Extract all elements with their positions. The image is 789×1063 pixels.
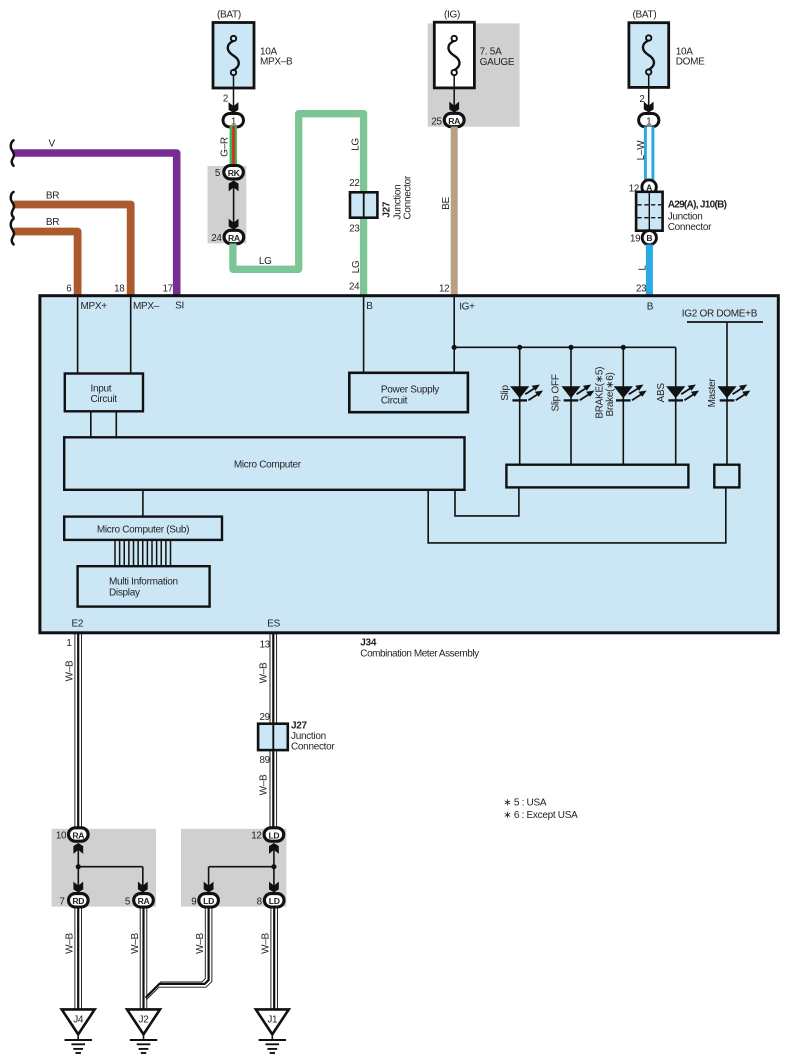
svg-text:1: 1 [231,117,237,128]
wire pin18 to input circuit [130,297,132,374]
svg-text:∗ 5 : USA: ∗ 5 : USA [503,798,547,809]
wire L-W [636,127,654,181]
wire brake LED branch [622,347,624,464]
svg-text:Micro Computer (Sub): Micro Computer (Sub) [97,524,189,535]
svg-text:LD: LD [203,896,214,906]
shield arrows and junction in gray block 2 [204,843,279,893]
wire fuse GAUGE to connector [449,75,459,112]
wire W-B from ES pin 13 [258,633,276,724]
bus from IG+ to indicator LEDs [452,345,676,350]
svg-text:Connector: Connector [291,742,335,753]
svg-text:8: 8 [257,896,263,907]
svg-text:Multi Information: Multi Information [109,576,178,587]
svg-text:Junction: Junction [668,211,703,222]
junction connector A29(A), J10(B) [636,192,727,233]
svg-text:Display: Display [109,587,140,598]
svg-text:Power Supply: Power Supply [381,384,439,395]
wire G-R [220,126,237,166]
svg-text:IG2 OR DOME+B: IG2 OR DOME+B [682,308,758,319]
svg-text:RA: RA [72,830,84,840]
wire ABS LED branch [675,347,677,464]
svg-text:RD: RD [72,896,84,906]
wire micro computer to LED driver [455,487,519,516]
junction connector J27 (lower) [258,721,335,753]
hatch bus sub to display [115,540,171,566]
connector RD pin 7 [59,894,88,908]
svg-text:J34: J34 [360,638,377,649]
svg-text:(IG): (IG) [444,10,460,21]
junction connector J27 (top) [350,175,414,219]
wire master LED branch [726,322,728,465]
svg-text:LG: LG [351,260,362,273]
svg-text:Slip OFF: Slip OFF [551,374,562,411]
svg-text:Combination Meter Assembly: Combination Meter Assembly [360,649,479,660]
power supply circuit block [349,373,468,412]
LED Slip [500,385,543,401]
svg-text:B: B [647,301,654,312]
svg-text:IG+: IG+ [459,301,475,312]
wire BR (to MPX+) [14,217,78,296]
wire fuse DOME to connector, pin 2 [639,75,653,113]
svg-text:5: 5 [125,896,131,907]
svg-text:MPX–B: MPX–B [260,57,293,68]
svg-text:DOME: DOME [676,57,705,68]
wire micro computer to sub [142,490,144,517]
input circuit block [65,374,143,412]
svg-text:(BAT): (BAT) [633,10,657,21]
connector oval 1 (MPX-B) [223,114,244,128]
svg-text:G–R: G–R [220,137,231,157]
connector RK pin 5 [215,166,244,180]
connector RA pin 10 [56,828,88,842]
wire W-B RA5 to ground J2 [130,907,147,1009]
svg-text:W–B: W–B [258,662,269,683]
svg-text:Circuit: Circuit [381,395,408,406]
wire W-B RD7 to ground J4 [65,907,82,1009]
fuse 7.5A GAUGE [434,10,515,88]
svg-text:5: 5 [215,168,221,179]
svg-text:BE: BE [441,197,452,210]
svg-text:18: 18 [114,283,125,294]
svg-text:23: 23 [636,283,647,294]
wire slip off LED branch [570,347,572,464]
wire LG (hairpin from RA24 to J27 to pin 24) [233,114,364,296]
svg-text:Slip: Slip [500,385,511,401]
gray block (IG fuse) [428,23,520,126]
svg-text:BR: BR [46,217,59,228]
svg-text:BRAKE(∗5): BRAKE(∗5) [595,367,606,419]
fuse 10A DOME [629,10,705,88]
svg-text:24: 24 [211,233,222,244]
connector RA pin 24 [211,230,244,244]
svg-text:Micro Computer: Micro Computer [234,459,302,470]
connector oval 1 (DOME) [639,114,659,128]
svg-text:13: 13 [260,639,271,650]
master driver block [714,465,739,488]
wire micro computer to master driver [428,487,726,543]
brace wire-break BR2 [11,219,14,245]
svg-text:SI: SI [175,300,184,311]
svg-text:9: 9 [191,896,196,907]
svg-text:6: 6 [66,283,72,294]
svg-text:Brake(∗6): Brake(∗6) [605,372,616,416]
multi information display block [78,566,210,606]
svg-text:29: 29 [259,712,269,723]
LED driver block [506,465,688,488]
svg-text:Circuit: Circuit [91,394,118,405]
gray block (LD connector pair) [181,829,286,907]
svg-text:25: 25 [431,117,442,128]
svg-text:J4: J4 [73,1015,84,1026]
wires input circuit to micro computer [90,411,92,437]
wire W-B LD9 joining J2 [146,907,212,1000]
svg-text:BR: BR [46,191,59,202]
gray block (RK/RA connector pair) [208,166,247,243]
svg-text:7: 7 [59,896,64,907]
svg-text:ABS: ABS [656,383,667,403]
svg-text:RA: RA [228,233,240,243]
svg-text:W–B: W–B [65,660,76,681]
svg-text:19: 19 [630,233,640,244]
svg-text:A29(A), J10(B): A29(A), J10(B) [668,199,727,210]
svg-text:B: B [366,301,373,312]
svg-text:(BAT): (BAT) [217,10,241,21]
svg-text:Master: Master [707,378,718,408]
connector RA pin 25 [431,113,464,127]
ground J2 [127,1009,160,1053]
LED Slip OFF [551,374,595,411]
svg-text:LD: LD [268,830,279,840]
wire pin24(B) to power supply [363,297,365,373]
svg-text:B: B [646,233,652,243]
svg-text:MPX–: MPX– [133,301,160,312]
svg-text:J2: J2 [139,1015,150,1026]
gray block (RA/RD/RA connector pair) [52,829,157,907]
svg-text:Connector: Connector [668,222,712,233]
svg-text:L–W: L–W [636,140,647,161]
svg-text:Junction: Junction [291,731,326,742]
ground J1 [256,1009,289,1053]
connector circle A pin 12 [629,180,657,194]
svg-text:1: 1 [646,116,652,127]
connector LD pin 8 [257,894,284,908]
svg-text:12: 12 [439,283,449,294]
svg-text:17: 17 [162,283,172,294]
net IG2 OR DOME+B [682,308,763,322]
svg-text:J1: J1 [267,1015,278,1026]
svg-text:ES: ES [267,619,280,630]
svg-text:RA: RA [448,116,460,126]
shield arrows and junction in gray block 1 [73,843,147,893]
connector LD pin 12 [251,828,283,842]
svg-text:10: 10 [56,831,67,842]
wire W-B LD8 to ground J1 [261,907,278,1009]
wire BE [441,127,458,297]
svg-text:LG: LG [259,256,272,267]
micro computer (sub) block [64,517,222,540]
wire slip LED branch [519,347,521,464]
LED ABS [656,383,699,403]
svg-text:LD: LD [269,896,280,906]
wire W-B from J27 to LD12 [258,750,276,828]
brace wire-break V [11,140,14,166]
wire pin12(IG+) to power supply [453,297,455,373]
svg-text:2: 2 [223,94,228,105]
svg-text:W–B: W–B [130,932,141,953]
connector LD pin 9 [191,894,218,908]
brace wire-break BR1 [11,192,14,218]
svg-text:J27: J27 [291,721,308,732]
svg-text:LG: LG [351,138,362,151]
ground J4 [62,1009,95,1053]
wire pin6 to input circuit [77,297,79,374]
svg-text:MPX+: MPX+ [81,301,108,312]
svg-text:W–B: W–B [258,774,269,795]
LED Master [707,378,750,408]
svg-text:W–B: W–B [261,932,272,953]
svg-text:L: L [637,265,648,271]
svg-text:V: V [49,139,56,150]
svg-text:2: 2 [639,94,644,105]
wire L [637,244,653,296]
svg-text:Input: Input [91,384,112,395]
fuse 10A MPX-B [213,10,293,89]
wire W-B from E2 pin 1 [65,633,82,829]
J34 designation text [360,638,479,660]
svg-text:E2: E2 [72,619,84,630]
svg-text:J27: J27 [382,201,393,218]
svg-text:Connector: Connector [403,175,414,219]
svg-text:RK: RK [228,168,241,178]
svg-text:∗ 6 : Except USA: ∗ 6 : Except USA [503,810,578,821]
svg-text:24: 24 [349,282,360,293]
LED BRAKE [595,367,647,419]
connector RA pin 5 [125,894,153,908]
combination meter assembly J34 box [40,296,778,633]
svg-text:23: 23 [349,224,360,235]
connector circle B pin 19 [630,231,656,245]
svg-text:GAUGE: GAUGE [480,57,515,68]
svg-text:W–B: W–B [65,932,76,953]
shield twisted-pair arrows between RK and RA [229,181,239,230]
wire V [14,139,177,296]
svg-text:89: 89 [259,755,269,766]
svg-text:12: 12 [251,831,261,842]
wire fuse MPX-B to connector, pin 2 [223,75,239,113]
wire BR (to MPX-) [14,191,131,296]
svg-text:22: 22 [349,178,359,189]
svg-text:W–B: W–B [195,932,206,953]
svg-text:RA: RA [138,896,150,906]
micro computer block [64,437,464,490]
svg-text:1: 1 [66,638,71,649]
